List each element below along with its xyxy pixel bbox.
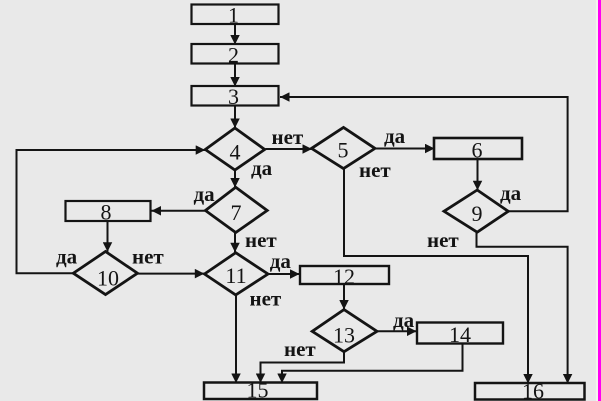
svg-text:10: 10 <box>97 266 119 291</box>
wire 11 to 15 <box>235 295 237 383</box>
svg-text:да: да <box>270 249 292 273</box>
wire 13 to 15 (нет path) <box>261 352 345 383</box>
svg-text:нет: нет <box>284 337 316 361</box>
process box 2 <box>192 43 279 68</box>
svg-text:3: 3 <box>228 84 239 109</box>
wire 13 to 14 <box>377 330 417 332</box>
wire 6 to 9 <box>477 159 479 191</box>
svg-text:15: 15 <box>247 377 269 401</box>
svg-text:13: 13 <box>333 322 355 347</box>
wire 7 to 11 <box>234 233 236 253</box>
decision diamond 11 <box>205 253 269 295</box>
svg-text:14: 14 <box>449 322 471 347</box>
decision diamond 9 <box>444 190 508 232</box>
process box 3 <box>192 84 279 109</box>
wire 11 to 12 <box>268 273 300 275</box>
page edge light seam <box>596 0 598 401</box>
svg-text:да: да <box>384 124 406 148</box>
wire 12 to 13 <box>343 285 345 310</box>
process box 14 <box>417 322 503 347</box>
svg-text:4: 4 <box>230 139 241 164</box>
wire 4 to 7 <box>234 170 236 187</box>
wire 5 to 6 <box>376 148 435 150</box>
svg-text:да: да <box>500 181 522 205</box>
svg-text:2: 2 <box>228 43 239 68</box>
wire 1 to 2 <box>234 25 236 45</box>
decision diamond 13 <box>312 310 377 352</box>
process box 6 <box>434 137 522 162</box>
svg-text:да: да <box>194 182 216 206</box>
process box 16 <box>475 378 585 401</box>
wire 9 to 16 (нет path) <box>477 232 568 383</box>
svg-text:1: 1 <box>228 3 239 28</box>
wire 4 to 5 <box>266 148 313 150</box>
process box 1 <box>192 3 279 28</box>
svg-text:11: 11 <box>225 263 246 288</box>
wire 10 да loop to 4 <box>17 150 206 273</box>
svg-text:нет: нет <box>132 245 164 269</box>
decision diamond 5 <box>312 127 376 168</box>
wire 8 to 10 <box>107 222 109 252</box>
svg-text:нет: нет <box>272 125 304 149</box>
wire 2 to 3 <box>234 64 236 87</box>
svg-text:да: да <box>251 156 273 180</box>
decision diamond 4 <box>205 128 264 170</box>
svg-text:нет: нет <box>359 158 391 182</box>
svg-text:16: 16 <box>522 378 544 401</box>
svg-text:8: 8 <box>101 200 112 225</box>
svg-text:нет: нет <box>250 287 282 311</box>
wire 7 to 8 <box>152 210 206 212</box>
process box 8 <box>66 200 151 225</box>
svg-text:9: 9 <box>472 201 483 226</box>
magenta page edge stripe <box>598 0 601 401</box>
wire 5 to 16 (нет path) <box>344 169 528 384</box>
decision diamond 7 <box>205 187 267 232</box>
svg-text:да: да <box>393 308 415 332</box>
svg-text:7: 7 <box>231 200 242 225</box>
wire 3 to 4 <box>234 106 236 128</box>
process box 12 <box>300 264 389 289</box>
svg-text:нет: нет <box>427 228 459 252</box>
process box 15 <box>204 377 317 401</box>
wire 10 to 11 <box>138 273 205 275</box>
wire 14 to 15 <box>282 344 463 384</box>
wire 9 да loop to 3 <box>280 97 568 211</box>
decision diamond 10 <box>73 252 137 295</box>
svg-text:да: да <box>56 245 78 269</box>
svg-text:5: 5 <box>338 138 349 163</box>
